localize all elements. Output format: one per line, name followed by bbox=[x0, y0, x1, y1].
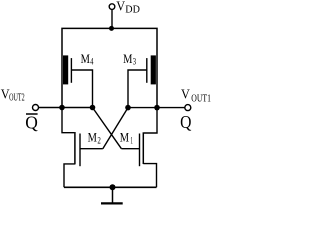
node left-rail junction 2 bbox=[90, 105, 96, 111]
terminal VOUT2 bbox=[33, 105, 39, 111]
wire cross-couple diagonal left bbox=[93, 108, 122, 149]
transistor M1 channel bar bbox=[142, 132, 144, 164]
svg-text:OUT1: OUT1 bbox=[191, 94, 211, 105]
node right-rail junction 3 bbox=[125, 105, 131, 111]
wire cross-couple diagonal right bbox=[103, 108, 128, 149]
wire M3 gate lead bbox=[128, 70, 147, 108]
svg-text:V: V bbox=[181, 87, 190, 102]
wire M1 source lead bbox=[143, 164, 156, 188]
wire M1 gate lead bbox=[121, 148, 139, 150]
transistor M1 gate bar bbox=[139, 134, 141, 167]
node VDD junction bbox=[109, 26, 114, 31]
svg-text:Q: Q bbox=[180, 112, 191, 132]
svg-text:1: 1 bbox=[130, 137, 133, 147]
wire M2 gate lead bbox=[80, 148, 103, 150]
transistor M4 channel bar bbox=[63, 55, 68, 84]
node ground junction bbox=[110, 184, 116, 190]
svg-text:Q: Q bbox=[25, 112, 38, 132]
node right-rail junction 4 bbox=[154, 105, 160, 111]
wire M1 drain lead bbox=[144, 108, 157, 133]
wire bottom rail bbox=[64, 186, 157, 188]
transistor M2 channel bar bbox=[74, 132, 76, 164]
transistor M3 gate bar bbox=[146, 58, 148, 83]
svg-text:4: 4 bbox=[90, 57, 93, 67]
terminal VOUT1 bbox=[185, 105, 191, 111]
svg-text:2: 2 bbox=[97, 136, 101, 146]
wire M2 source lead bbox=[64, 164, 75, 187]
wire left output rail bbox=[38, 107, 92, 109]
transistor M2 gate bar bbox=[79, 134, 81, 167]
svg-text:DD: DD bbox=[125, 5, 140, 16]
VDD terminal bbox=[109, 4, 115, 10]
svg-text:M: M bbox=[88, 129, 98, 144]
wire right output rail bbox=[128, 107, 185, 109]
wire M2 drain lead bbox=[62, 108, 74, 133]
transistor M3 channel bar bbox=[151, 55, 156, 84]
wire VDD stem bbox=[111, 9, 113, 28]
svg-text:3: 3 bbox=[133, 57, 136, 67]
svg-text:OUT2: OUT2 bbox=[9, 92, 25, 103]
svg-text:M: M bbox=[120, 130, 130, 145]
wire M4 gate lead bbox=[71, 70, 92, 108]
node left-rail junction 1 bbox=[59, 105, 65, 111]
svg-text:M: M bbox=[123, 51, 133, 66]
svg-text:M: M bbox=[81, 51, 91, 66]
svg-text:V: V bbox=[116, 0, 125, 14]
transistor M4 gate bar bbox=[70, 58, 72, 83]
ground bbox=[112, 187, 114, 203]
wire top rail with left and right branches bbox=[62, 28, 157, 107]
